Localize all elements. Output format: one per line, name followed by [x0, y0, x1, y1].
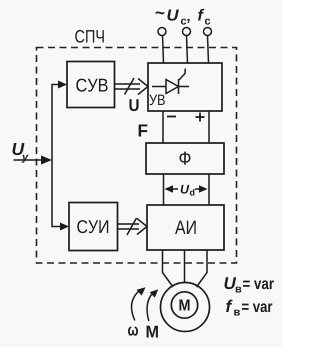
bus arrow U (СУВ to УВ) [115, 78, 149, 95]
block СУВ [67, 62, 115, 108]
arrow into СУВ [58, 81, 67, 89]
label Ud sub d [190, 189, 195, 196]
label ~ sign [156, 12, 165, 15]
label АИ text [175, 221, 196, 234]
label Uв = var [243, 280, 274, 289]
label fв = var [242, 303, 272, 312]
arrow into СУИ [60, 223, 69, 231]
dimension arrow Ud left [165, 185, 179, 192]
label СУВ text [76, 79, 107, 92]
input arrow Uy [14, 159, 46, 161]
wire terminal 1 to УВ [163, 36, 164, 64]
dashed enclosure СПЧ [37, 48, 237, 264]
terminal circle 2 [183, 28, 191, 36]
label fв sub в [234, 310, 240, 316]
thyristor [152, 69, 189, 95]
label minus [167, 116, 176, 118]
control distribution wire up [52, 85, 60, 161]
arrow М torque [147, 289, 158, 321]
arrow ω [132, 287, 146, 320]
motor wire left [163, 250, 174, 287]
label Ф text [179, 152, 190, 165]
label Uc sub c [181, 19, 186, 25]
block Ф [146, 143, 224, 174]
label М torque label [147, 326, 158, 338]
label Uв sub в [236, 287, 242, 293]
terminal circle 1 [158, 28, 166, 36]
block УВ [148, 63, 222, 111]
label comma [187, 19, 189, 23]
dc wire left УВ-Ф [162, 111, 164, 143]
label Uв U [224, 277, 236, 289]
wire terminal 3 to УВ [208, 36, 209, 64]
motor inner circle [171, 292, 197, 318]
label Uy U [13, 143, 25, 155]
block СУИ [69, 203, 118, 251]
dc wire right УВ-Ф [208, 111, 210, 143]
control distribution wire down [52, 160, 62, 227]
bus arrow СУИ to АИ [118, 218, 148, 235]
label U bus label [129, 99, 138, 111]
dimension arrow Ud right [195, 185, 208, 192]
label Uy sub y [22, 155, 29, 163]
label СПЧ [75, 30, 104, 43]
label СУИ text [77, 220, 108, 233]
dc wire right Ф-АИ [208, 174, 210, 205]
motor wire right [197, 250, 208, 287]
label М motor text [179, 299, 189, 310]
label Ud U [181, 185, 190, 194]
wire terminal 2 to УВ [187, 36, 188, 64]
label fc f [198, 9, 204, 21]
motor outer circle [161, 283, 210, 332]
label ω label [128, 326, 138, 335]
block АИ [147, 205, 224, 250]
label УВ text [149, 95, 164, 105]
label fв f [226, 300, 232, 312]
terminal circle 3 [204, 28, 212, 36]
label fc sub c [205, 19, 210, 25]
motor wire middle [184, 250, 186, 283]
dc wire left Ф-АИ [163, 174, 165, 205]
label Uc U [167, 9, 178, 20]
label F label [139, 124, 148, 136]
label plus [196, 113, 205, 122]
